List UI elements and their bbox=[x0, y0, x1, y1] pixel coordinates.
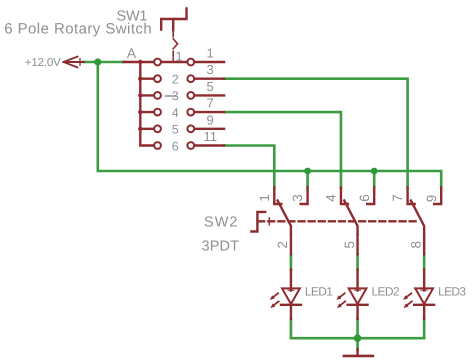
svg-text:SW2: SW2 bbox=[204, 215, 238, 231]
svg-text:+12.0V: +12.0V bbox=[25, 57, 61, 69]
svg-text:A: A bbox=[127, 45, 137, 61]
svg-text:9: 9 bbox=[207, 112, 214, 127]
svg-text:3PDT: 3PDT bbox=[202, 239, 240, 255]
svg-text:5: 5 bbox=[172, 123, 179, 137]
svg-text:LED1: LED1 bbox=[305, 285, 333, 299]
svg-text:6: 6 bbox=[172, 139, 179, 153]
svg-text:2: 2 bbox=[275, 241, 290, 249]
svg-text:LED2: LED2 bbox=[372, 285, 400, 299]
svg-text:LED3: LED3 bbox=[438, 285, 466, 299]
svg-text:7: 7 bbox=[390, 194, 405, 202]
svg-text:5: 5 bbox=[207, 79, 214, 94]
svg-text:4: 4 bbox=[324, 194, 339, 202]
svg-text:11: 11 bbox=[204, 129, 218, 144]
svg-text:1: 1 bbox=[257, 194, 272, 202]
svg-text:3: 3 bbox=[290, 194, 305, 202]
svg-text:4: 4 bbox=[172, 106, 179, 120]
svg-text:9: 9 bbox=[424, 195, 439, 203]
svg-text:1: 1 bbox=[207, 46, 214, 61]
svg-text:8: 8 bbox=[408, 241, 423, 249]
svg-text:6: 6 bbox=[357, 194, 372, 202]
svg-text:3: 3 bbox=[207, 62, 214, 77]
svg-text:7: 7 bbox=[207, 96, 214, 111]
svg-text:5: 5 bbox=[342, 241, 357, 249]
svg-text:2: 2 bbox=[172, 73, 179, 87]
svg-text:6 Pole Rotary Switch: 6 Pole Rotary Switch bbox=[4, 21, 152, 38]
